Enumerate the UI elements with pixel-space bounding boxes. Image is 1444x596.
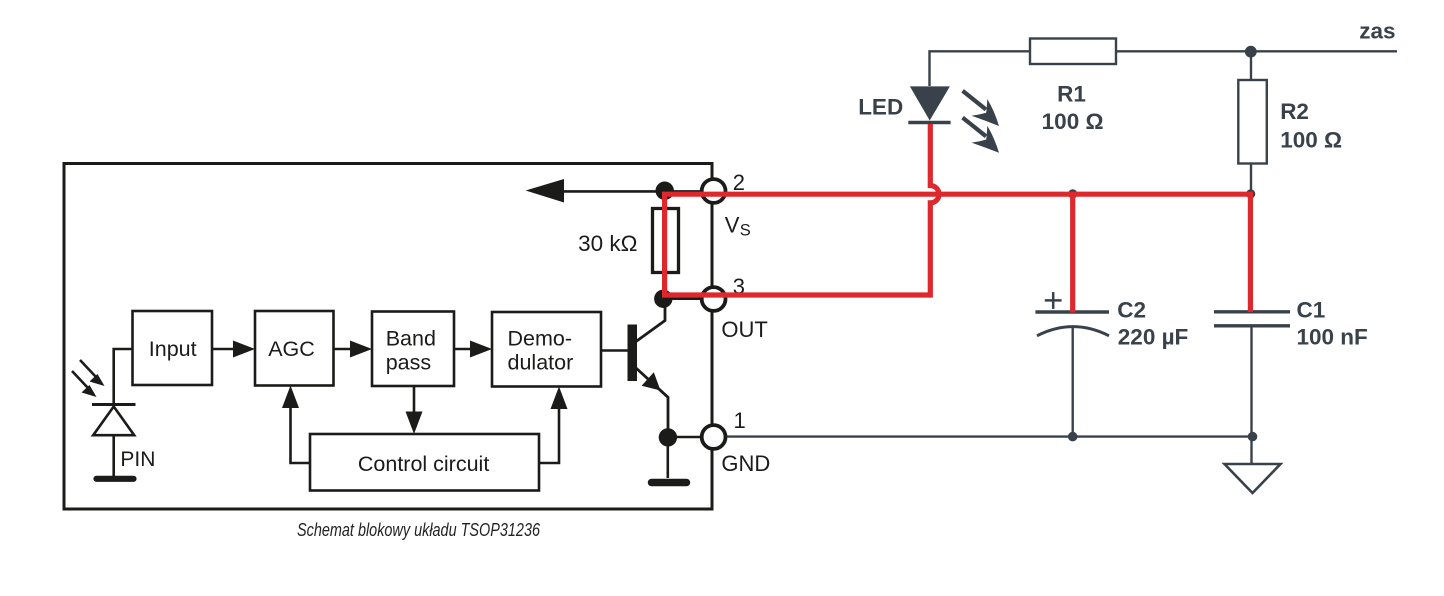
red wire Vs to R2 bottom and C1 — [662, 194, 1250, 312]
resistor R2 — [1238, 51, 1342, 194]
svg-text:AGC: AGC — [268, 337, 315, 361]
pin 3 circle — [702, 274, 745, 311]
block Input — [133, 311, 213, 385]
node C2 GND junction dot — [1068, 432, 1078, 442]
arrow Input to AGC — [212, 341, 255, 358]
svg-text:zas: zas — [1359, 19, 1395, 44]
node C1 GND junction dot — [1248, 432, 1258, 442]
light arrows from LED — [963, 91, 999, 153]
capacitor C2 — [1035, 292, 1188, 436]
wire Input to PIN diode — [114, 349, 133, 403]
svg-text:R2: R2 — [1280, 99, 1309, 124]
block Control circuit — [310, 434, 539, 491]
svg-text:PIN: PIN — [120, 448, 155, 471]
ground bar of transistor emitter — [652, 437, 687, 483]
caption Schemat blokowy — [297, 520, 541, 540]
svg-text:dulator: dulator — [508, 350, 574, 374]
block Demodulator — [492, 312, 601, 387]
svg-text:S: S — [740, 222, 751, 240]
svg-text:Schemat blokowy układu TSOP312: Schemat blokowy układu TSOP31236 — [297, 520, 541, 540]
pin 2 label Vs — [725, 213, 751, 240]
svg-text:220 µF: 220 µF — [1118, 325, 1189, 350]
red wire C2 branch — [1070, 194, 1075, 312]
wire top supply rail — [930, 51, 1398, 86]
node zas junction dot — [1245, 46, 1257, 58]
svg-text:Control circuit: Control circuit — [358, 452, 489, 476]
svg-text:OUT: OUT — [721, 317, 767, 342]
wire Band pass to Control circuit — [406, 386, 423, 434]
light arrows into PIN diode — [72, 360, 105, 397]
capacitor C1 — [1214, 297, 1368, 436]
pin 1 label GND — [721, 451, 770, 476]
ground symbol — [1225, 437, 1281, 493]
arrow output left from Vs node — [526, 179, 700, 203]
pin 1 circle — [702, 408, 746, 449]
node GND junction dot — [659, 428, 701, 446]
red wire Vs to OUT vertical — [662, 194, 667, 295]
arrow AGC to Band pass — [334, 341, 373, 358]
svg-text:30 kΩ: 30 kΩ — [578, 231, 637, 256]
svg-text:R1: R1 — [1057, 82, 1086, 107]
svg-text:V: V — [725, 213, 740, 238]
svg-text:Demo-: Demo- — [508, 326, 573, 350]
wire Control circuit to AGC feedback — [282, 386, 310, 464]
resistor R1 — [1030, 39, 1116, 135]
node OUT junction dot — [654, 290, 701, 308]
wire Control circuit to Demodulator feedback — [539, 387, 568, 464]
node C2 top junction dot — [1068, 189, 1077, 198]
svg-text:pass: pass — [386, 350, 431, 374]
block AGC — [255, 311, 334, 386]
pin 3 label OUT — [721, 317, 767, 342]
svg-text:1: 1 — [734, 408, 746, 433]
node R2 bottom junction dot — [1246, 189, 1255, 198]
svg-text:Input: Input — [149, 337, 197, 361]
svg-text:LED: LED — [858, 95, 903, 120]
node Vs junction dot — [656, 182, 674, 200]
svg-text:C2: C2 — [1117, 297, 1146, 322]
net label zas — [1359, 19, 1395, 44]
transistor Q1 — [601, 299, 668, 437]
svg-text:100 Ω: 100 Ω — [1042, 109, 1104, 134]
svg-text:100 Ω: 100 Ω — [1280, 128, 1342, 153]
svg-text:Band: Band — [386, 326, 436, 350]
svg-text:100 nF: 100 nF — [1297, 325, 1368, 350]
diode LED — [858, 86, 950, 122]
pin 2 circle — [702, 170, 745, 203]
block Band pass — [372, 312, 454, 387]
svg-text:GND: GND — [721, 451, 770, 476]
resistor 30 kOhm — [578, 196, 678, 299]
arrow Band pass to Demodulator — [454, 341, 492, 358]
IC outline box U1 TSOP31236 — [64, 164, 712, 510]
photodiode PIN — [92, 405, 155, 478]
wire GND rail — [727, 435, 1252, 437]
svg-text:C1: C1 — [1297, 297, 1326, 322]
red wire OUT to LED with hop — [662, 124, 939, 295]
ground bar of PIN diode — [97, 476, 134, 482]
svg-text:2: 2 — [733, 170, 745, 195]
